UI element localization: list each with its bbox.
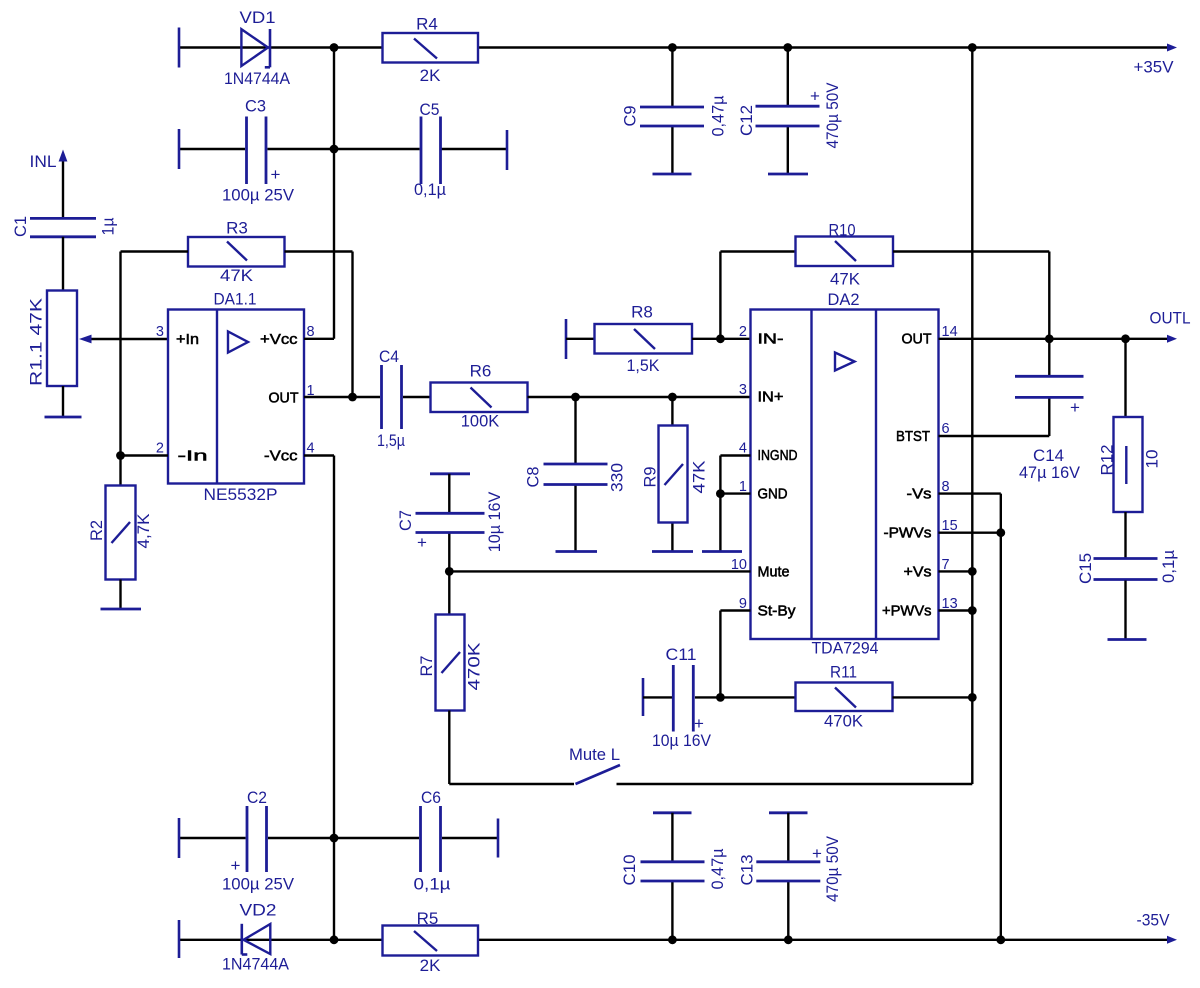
svg-text:C6: C6 [421,788,441,807]
svg-text:R4: R4 [416,15,438,34]
resistor R7 [436,615,465,711]
svg-text:OUT: OUT [269,390,299,407]
svg-text:OUTL: OUTL [1150,309,1191,328]
wire C11 to R11 [695,696,796,698]
svg-text:+: + [231,856,241,875]
wire C9 stem [671,48,673,174]
pin number 4 (DA2) [739,441,747,457]
svg-text:47K: 47K [690,460,709,494]
svg-text:47K: 47K [830,270,861,289]
pin label BTST [896,428,930,445]
capacitor C5 [421,117,441,185]
svg-text:R1.1 47K: R1.1 47K [27,297,46,386]
output arrow OUTL [1167,335,1177,343]
svg-text:C4: C4 [379,347,399,366]
wire OUT to C4 [304,396,380,398]
svg-text:C11: C11 [666,645,697,664]
wire C10 stem [671,813,673,940]
node +Vs junction [968,567,977,576]
svg-text:R11: R11 [830,663,857,682]
svg-text:DA2: DA2 [828,290,860,309]
svg-text:4,7K: 4,7K [134,513,153,549]
pin label +In [176,331,199,348]
node GND junction [716,489,725,498]
pin label +Vs [904,564,932,581]
value 10µ 16V (C11) [652,731,712,750]
pin number 1 (DA2) [739,479,747,495]
wire R8 left stub [566,338,595,340]
value TDA7294 (DA2) [812,639,879,658]
value 470K (R7) [465,642,484,691]
svg-text:R3: R3 [226,219,248,238]
svg-text:NE5532P: NE5532P [204,485,278,504]
node C2-C6 line x334 [330,834,339,843]
pin label OUT (DA1.1) [269,390,299,407]
svg-text:VD2: VD2 [240,901,277,920]
svg-text:100µ 25V: 100µ 25V [222,186,295,205]
svg-text:0,47µ: 0,47µ [708,848,727,889]
node OUT DA1.1 [348,393,357,402]
svg-text:TDA7294: TDA7294 [812,639,879,658]
capacitor C9 [640,107,704,126]
svg-text:470µ 50V: 470µ 50V [823,835,842,902]
label DA1.1 [214,290,257,309]
pin label -PWVs [884,525,932,542]
label DA2 [828,290,860,309]
node R12 junction [1121,334,1130,343]
pin label Mute [758,564,790,581]
svg-text:+: + [810,87,820,106]
svg-text:C9: C9 [621,106,640,127]
svg-text:INL: INL [30,152,57,171]
pin label -In [178,448,208,465]
node C13 on -35V [784,935,793,944]
wire switch to +35V drop [617,48,973,785]
pin number 15 (DA2) [942,518,958,534]
capacitor C1 [30,218,96,236]
label VD2 [240,901,277,920]
ground bar C12 [768,173,808,176]
svg-text:2: 2 [156,441,164,457]
value 47K (R9) [690,460,709,494]
pin number 13 (DA2) [942,596,958,612]
label -35V [1137,911,1171,930]
svg-text:0,1µ: 0,1µ [1159,550,1178,583]
node C8 junction [571,393,580,402]
ground bar DA2 [702,550,742,553]
node R9 junction [668,393,677,402]
pin label IN+ [758,389,784,406]
svg-text:R5: R5 [417,909,439,928]
pin number 3 (DA1.1) [156,324,164,340]
value 470µ 50V (C13) [823,835,842,902]
svg-text:+: + [417,533,427,552]
label C15 [1076,553,1095,584]
diode VD1 triangle [241,29,268,66]
node +PWVs junction [968,606,977,615]
label R9 [641,467,660,488]
wire -PWVs stub [939,532,1001,534]
value 470µ 50V (C12) [823,82,842,149]
node x334 on -35V [330,935,339,944]
wire R3 left to -In [121,252,189,456]
svg-text:4: 4 [307,441,315,457]
pin label -Vcc [264,448,298,465]
value 47µ 16V (C14) [1019,463,1081,482]
value 2K (R4) [420,66,441,85]
pin number 8 (DA2) [942,479,950,495]
terminal bar right of C5 [506,130,509,170]
label C5 [420,100,440,119]
polarity + (C3) [271,165,281,184]
wire R8 to IN- [692,338,751,340]
pin label -Vs [907,486,932,503]
label R3 [226,219,248,238]
pin number 2 (DA2) [739,324,747,340]
wire -In to R2 [119,456,121,486]
svg-text:R6: R6 [470,362,492,381]
wire OUT line DA2 [939,338,1168,340]
label INL [30,152,57,171]
polarity + (C2) [231,856,241,875]
wire C7 stem [448,474,450,572]
wire C3-C5 line [179,148,507,150]
polarity + (C14) [1070,398,1080,417]
capacitor C7 [416,513,485,532]
pin label IN- [758,331,784,348]
wire C8 stem [574,397,576,551]
svg-text:BTST: BTST [896,428,930,445]
wire R12 to C15 [1124,512,1126,558]
wire C15 to ground [1124,581,1126,640]
svg-text:2: 2 [739,324,747,340]
wire -35V rail [179,939,1168,941]
pin number 2 (DA1.1) [156,441,164,457]
wire IN- to R10 [719,252,721,339]
svg-text:IN-: IN- [758,331,784,348]
value 0,1µ (C5) [414,180,446,199]
svg-text:+In: +In [176,331,199,348]
terminal bar right of C6 [497,819,500,858]
svg-text:10µ 16V: 10µ 16V [652,731,712,750]
ground R1.1 [45,416,82,419]
label Mute L [569,745,620,764]
label OUTL [1150,309,1191,328]
wire R3 right to OUT [285,252,353,398]
value 47K (R3) [220,266,254,285]
node C9 on +35V [668,43,677,52]
wire St-By stub [720,611,750,698]
pin label OUT (DA2) [902,331,932,348]
value 0,47µ (C9) [709,95,728,136]
label C7 [396,510,415,531]
diode VD2 cathode bar [242,924,248,955]
value 2K (R5) [420,956,441,975]
wire wiper pin3 [91,338,168,340]
svg-text:Mute L: Mute L [569,745,620,764]
pin label INGND [758,447,798,464]
capacitor C15 [1094,559,1158,580]
svg-text:0,47µ: 0,47µ [709,95,728,136]
svg-text:St-By: St-By [758,603,796,620]
wire R6 to IN+ [528,396,751,398]
resistor R9 [659,426,688,523]
capacitor C10 [641,862,705,881]
capacitor C3 [247,117,267,185]
svg-text:2K: 2K [420,956,441,975]
capacitor C4 [382,365,402,429]
svg-text:Mute: Mute [758,564,790,581]
svg-text:-PWVs: -PWVs [884,525,932,542]
svg-text:C10: C10 [620,855,639,886]
svg-text:R10: R10 [829,221,856,240]
wire C11 left stub [643,696,672,698]
svg-text:GND: GND [758,486,788,503]
terminal bar left of R8 [565,319,568,359]
potentiometer R1.1 [47,291,77,387]
ic DA2 body [751,310,939,640]
value 10 (R12) [1143,450,1162,469]
svg-text:-Vs: -Vs [907,486,932,503]
svg-text:100µ 25V: 100µ 25V [222,875,295,894]
terminal bar left of VD1 [178,28,181,68]
wire pin2 -In stub [121,454,169,456]
label R1.1 47K [27,297,46,386]
label C11 [666,645,697,664]
label C6 [421,788,441,807]
pin number 4 (DA1.1) [307,441,315,457]
node C3-C5 line x334 [330,145,339,154]
resistor R3 [188,237,285,267]
capacitor C8 [544,464,608,485]
svg-text:C3: C3 [245,97,266,116]
pin number 9 (DA2) [739,596,747,612]
wire R7 to switch [449,711,574,785]
value 1µ (C1) [99,217,118,235]
label R2 [87,520,106,541]
wire +Vs stub [939,570,973,572]
capacitor C13 [756,862,820,881]
pin number 14 (DA2) [942,324,958,340]
value 0,1µ (C6) [414,875,451,894]
diode VD1 cathode bar [265,29,270,67]
input arrow INL [59,150,68,219]
pin label +PWVs [882,603,932,620]
svg-text:330: 330 [608,463,627,492]
svg-text:1µ: 1µ [99,217,118,235]
label +35V [1134,58,1175,77]
wire +35V rail [179,46,1168,48]
polarity + (C7) [417,533,427,552]
svg-text:0,1µ: 0,1µ [414,875,451,894]
label C10 [620,855,639,886]
pin label GND [758,486,788,503]
pin label St-By [758,603,796,620]
value NE5532P (DA1.1) [204,485,278,504]
svg-text:R9: R9 [641,467,660,488]
wire INGND stub [720,456,750,552]
label R12 [1098,445,1117,476]
svg-text:2K: 2K [420,66,441,85]
wiper arrow R1.1 [79,335,92,344]
pin number 8 (DA1.1) [307,324,315,340]
wire OUT to R12 [1124,339,1126,417]
node R11 right junction [968,693,977,702]
pin number 10 (DA2) [731,557,747,573]
svg-text:-In: -In [178,448,208,465]
resistor R11 [796,683,893,712]
wire R10 right [893,252,1049,339]
resistor R5 [383,926,479,956]
label C2 [247,788,267,807]
svg-text:0,1µ: 0,1µ [414,180,446,199]
svg-text:C12: C12 [737,105,756,136]
wire pin8 +Vcc stub [304,338,334,340]
terminal bar left of VD2 [178,920,181,958]
resistor R12 [1114,417,1143,512]
wire C4 to R6 [403,396,431,398]
node -PWVs junction [996,528,1005,537]
pin number 3 (DA2) [739,382,747,398]
node -In junction [116,451,125,460]
label C1 [11,216,30,237]
terminal bar left of C11 [642,678,645,716]
wire C12 stem [787,48,789,174]
value 4,7K (R2) [134,513,153,549]
svg-text:47µ 16V: 47µ 16V [1019,463,1081,482]
svg-text:OUT: OUT [902,331,932,348]
svg-text:10: 10 [1143,450,1162,469]
node top rail / pin8 drop [330,43,339,52]
svg-text:+: + [271,165,281,184]
diode VD2 triangle [244,924,271,954]
node -Vs drop on -35V [996,935,1005,944]
value 100K (R6) [461,412,500,431]
wire vertical x334 upper [333,48,335,339]
label VD1 [240,8,276,27]
value 1N4744A (VD1) [224,69,291,88]
label R5 [417,909,439,928]
value 0,1µ (C15) [1159,550,1178,583]
label R10 [829,221,856,240]
capacitor C6 [421,806,441,872]
polarity + (C13) [812,844,822,863]
wire Mute line [449,570,750,572]
wire C2-C6 line [179,837,498,839]
wire C7 to R7 [448,571,450,614]
value 100µ 25V (C3) [222,186,295,205]
svg-text:4: 4 [739,441,747,457]
capacitor C12 [756,106,820,126]
label C13 [738,855,757,886]
label R4 [416,15,438,34]
pin number 6 (DA2) [942,421,950,437]
power arrow +35V [1167,44,1177,52]
svg-text:C7: C7 [396,510,415,531]
resistor R10 [796,237,894,267]
capacitor C2 [247,806,267,872]
svg-text:-Vcc: -Vcc [264,448,298,465]
svg-text:100K: 100K [461,412,500,431]
wire C14 stem [1048,339,1050,436]
polarity + (C11) [694,714,704,733]
value 470K (R11) [824,712,864,731]
wire vertical x334 lower [333,456,335,940]
svg-text:C2: C2 [247,788,267,807]
label R6 [470,362,492,381]
svg-text:+35V: +35V [1134,58,1175,77]
svg-text:R12: R12 [1098,445,1117,476]
svg-text:1,5K: 1,5K [627,356,661,375]
value 47K (R10) [830,270,861,289]
svg-text:+: + [1070,398,1080,417]
label C3 [245,97,266,116]
svg-text:DA1.1: DA1.1 [214,290,257,309]
node St-By junction [716,693,725,702]
wire R10 left [720,250,795,252]
polarity + (C12) [810,87,820,106]
wire BTST [939,435,1050,437]
terminal bar top of C7 [430,472,470,475]
op-amp DA1.1 triangle [228,332,248,353]
svg-text:470µ 50V: 470µ 50V [823,82,842,149]
svg-text:10µ 16V: 10µ 16V [485,491,504,552]
svg-text:C8: C8 [524,467,543,488]
node IN- junction [716,334,725,343]
switch Mute L lever [576,765,621,784]
wire C1 to R1.1 [62,237,64,291]
svg-text:C5: C5 [420,100,440,119]
ground bar C13 top [769,811,808,814]
svg-text:+Vs: +Vs [904,564,932,581]
node C12 on +35V [783,43,792,52]
terminal bar left of C2 [178,818,181,858]
wire R1.1 to ground [62,386,64,417]
svg-text:1,5µ: 1,5µ [377,431,405,450]
ground bar R9 [652,550,693,553]
label C12 [737,105,756,136]
value 10µ 16V (C7) [485,491,504,552]
capacitor C11 [673,665,693,732]
wire R9 stem [671,397,673,551]
svg-text:3: 3 [156,324,164,340]
node C14 junction [1045,334,1054,343]
svg-text:+PWVs: +PWVs [882,603,932,620]
pin label +Vcc [260,331,298,348]
wire C13 stem [787,813,789,940]
label C4 [379,347,399,366]
value 100µ 25V (C2) [222,875,295,894]
ground bar C15 [1108,638,1147,641]
wire R11 to +35V drop [893,696,973,698]
resistor R8 [595,324,693,354]
value 330 (C8) [608,463,627,492]
value 1,5µ (C4) [377,431,405,450]
svg-text:C1: C1 [11,216,30,237]
wire GND stub [720,492,750,494]
node C10 on -35V [668,935,677,944]
svg-text:1N4744A: 1N4744A [224,69,291,88]
svg-text:INGND: INGND [758,447,798,464]
svg-text:1N4744A: 1N4744A [222,955,290,974]
wire -Vs stub [939,494,1001,940]
ground R2 [101,608,142,611]
capacitor C14 [1015,376,1084,397]
resistor R6 [431,383,528,413]
node +Vs drop on +35V [968,43,977,52]
svg-text:47K: 47K [220,266,254,285]
svg-text:-35V: -35V [1137,911,1171,930]
